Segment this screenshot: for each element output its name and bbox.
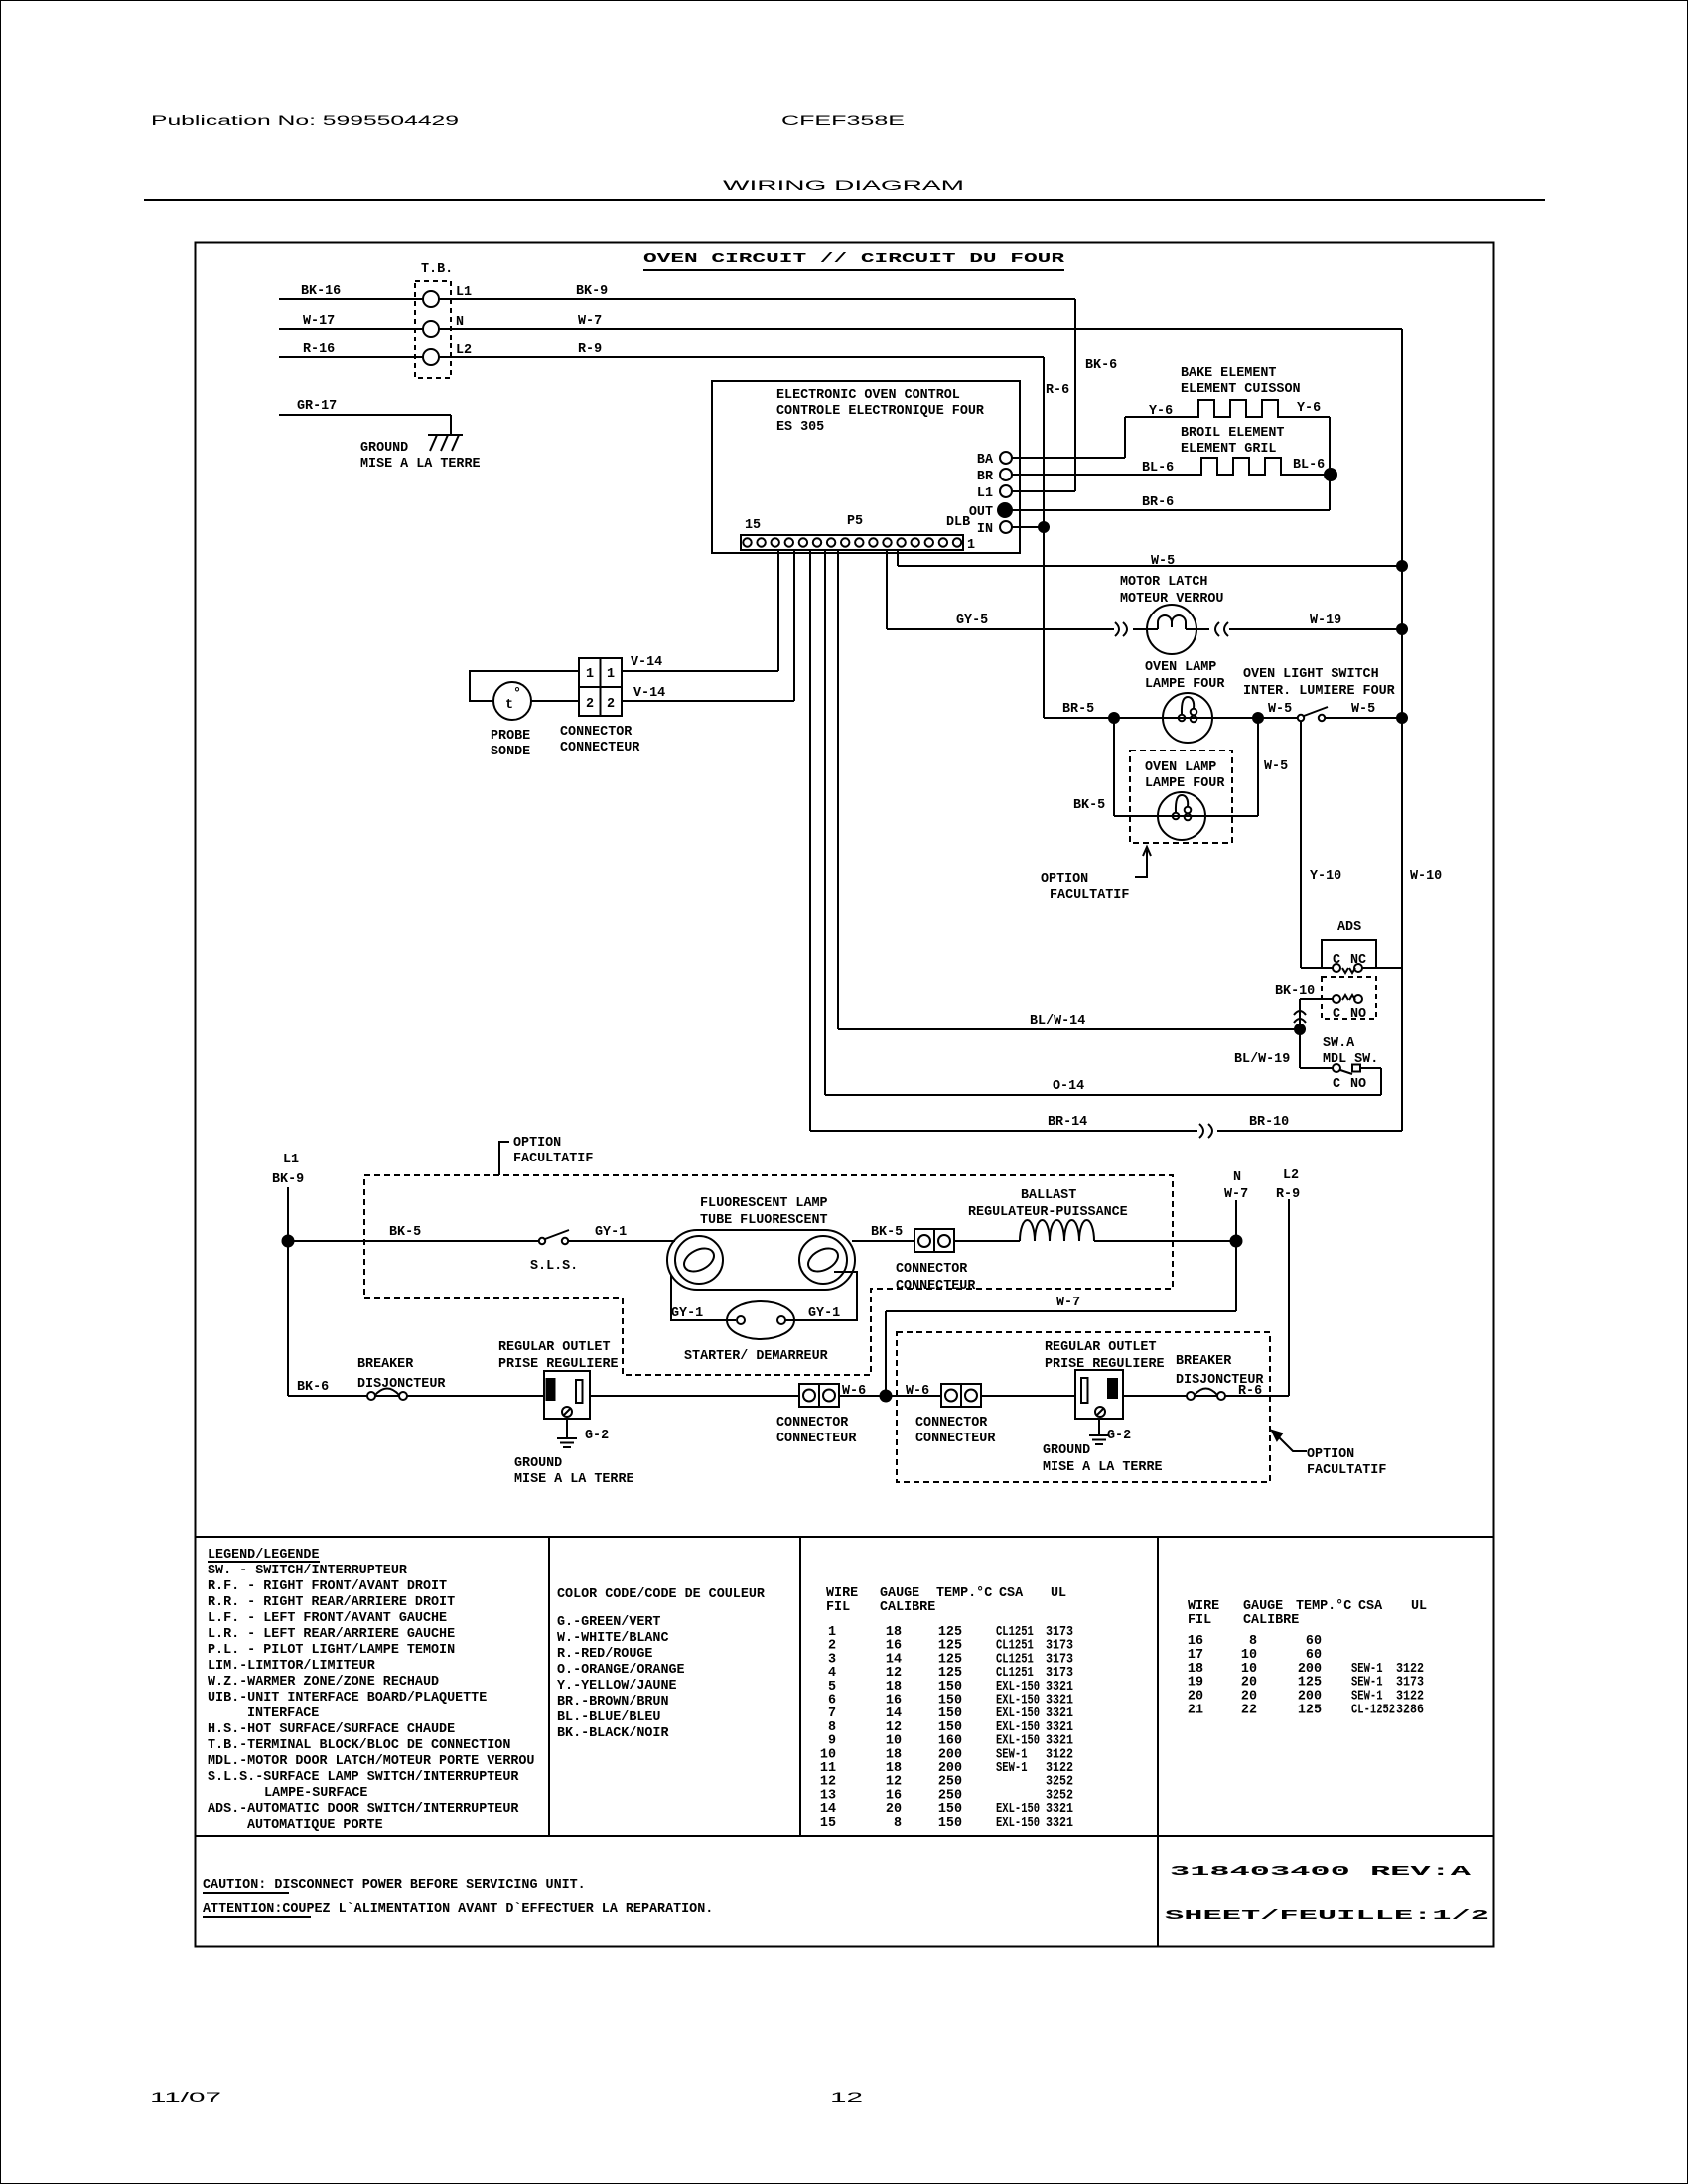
wire ballast to N node [1094,1240,1236,1242]
svg-text:CONNECTOR: CONNECTOR [776,1416,849,1431]
svg-text:LAMPE FOUR: LAMPE FOUR [1145,677,1225,692]
dashed option outline (fluorescent lamp group) [364,1175,1173,1375]
wire W bus vertical (W-7/W-10) right side [1401,329,1403,1131]
svg-text:V-14: V-14 [631,655,662,670]
svg-text:PRISE REGULIERE: PRISE REGULIERE [498,1357,619,1372]
svg-text:OVEN LAMP: OVEN LAMP [1145,660,1216,675]
svg-text:SEW-1: SEW-1 [1351,1676,1383,1691]
svg-text:GROUND: GROUND [1043,1443,1090,1458]
wire to W-6 junction [839,1395,886,1397]
svg-text:BROIL ELEMENT: BROIL ELEMENT [1181,426,1284,441]
svg-text:L1: L1 [283,1153,299,1167]
wire GR-17 ground lead [279,399,451,435]
wire W-6 to right outlet [981,1395,1075,1397]
svg-text:OVEN CIRCUIT // CIRCUIT DU FOU: OVEN CIRCUIT // CIRCUIT DU FOUR [643,252,1066,267]
starter STARTER/DEMARREUR [684,1301,829,1364]
ground symbol right outlet G-2 [1043,1419,1163,1475]
svg-text:SEW-1: SEW-1 [1351,1662,1383,1677]
svg-text:C: C [1333,1077,1340,1092]
svg-text:125: 125 [1298,1676,1322,1691]
svg-text:t: t [505,698,513,713]
svg-text:FLUORESCENT LAMP: FLUORESCENT LAMP [700,1196,828,1211]
svg-text:125: 125 [1298,1704,1322,1718]
leader arrow to right option box [1272,1431,1307,1451]
svg-text:T.B.-TERMINAL BLOCK/BLOC DE CO: T.B.-TERMINAL BLOCK/BLOC DE CONNECTION [208,1738,510,1753]
connector (ballast) 2 pole [896,1229,976,1294]
svg-text:SW.A: SW.A [1323,1036,1355,1051]
svg-text:FACULTATIF: FACULTATIF [1307,1463,1386,1478]
svg-text:17: 17 [1188,1648,1203,1663]
svg-text:W-7: W-7 [578,314,602,329]
svg-text:2: 2 [607,697,615,712]
wire V-14 pin1 from P5 strip [622,550,778,671]
junction W-6 / W-7 [881,1391,892,1402]
junction BK-9/BK-5 [283,1236,294,1247]
svg-text:CSA: CSA [1358,1599,1383,1614]
junction BR-5 / optional lamp branch [1109,713,1119,723]
wire BK-10 to ADS lower C [1275,984,1333,1029]
EOC connector strip P5 [741,514,975,553]
wire BK-5 branch to optional lamp [1073,718,1114,816]
svg-text:W.-WHITE/BLANC: W.-WHITE/BLANC [557,1631,669,1646]
svg-text:WIRING DIAGRAM: WIRING DIAGRAM [723,178,964,193]
svg-text:W-17: W-17 [303,314,335,329]
svg-text:10: 10 [1241,1648,1257,1663]
svg-text:W-10: W-10 [1410,869,1442,884]
svg-text:P5: P5 [847,514,863,529]
dashed option outline (right outlet group) [897,1332,1270,1482]
svg-text:BL.-BLUE/BLEU: BL.-BLUE/BLEU [557,1710,660,1725]
svg-text:ELEMENT CUISSON: ELEMENT CUISSON [1181,382,1301,397]
svg-text:W-7: W-7 [1224,1187,1248,1202]
ADS automatic door switch lower (C-NO) dashed [1322,977,1376,1022]
svg-text:12: 12 [830,2090,863,2105]
junction W-5 switch on W bus [1397,713,1407,723]
svg-text:GR-17: GR-17 [297,399,337,414]
svg-text:L.R. - LEFT REAR/ARRIERE GAUCH: L.R. - LEFT REAR/ARRIERE GAUCHE [208,1627,455,1642]
wire Y-10 from oven light switch to ADS [1301,721,1341,968]
wire R-9 from terminal L2 [439,342,1044,357]
svg-text:60: 60 [1306,1634,1322,1649]
svg-text:UL: UL [1411,1599,1427,1614]
svg-text:318403400 REV:A: 318403400 REV:A [1170,1865,1473,1880]
svg-text:BK-9: BK-9 [576,284,608,299]
wire W-5 from P5 strip to W bus [898,550,1402,569]
svg-text:BL-6: BL-6 [1293,458,1325,473]
junction W-5 on W bus [1397,561,1407,571]
node L2 R-9 lower feed [1276,1168,1300,1396]
svg-text:P.L. - PILOT LIGHT/LAMPE TEMOI: P.L. - PILOT LIGHT/LAMPE TEMOIN [208,1643,455,1658]
svg-text:BREAKER: BREAKER [1176,1354,1232,1369]
wire GY-5 from P5 strip to motor latch [887,550,1114,629]
svg-text:SHEET/FEUILLE:1/2: SHEET/FEUILLE:1/2 [1165,1909,1489,1924]
EOC pin OUT (DLB) [946,503,1012,530]
svg-text:T.B.: T.B. [421,262,453,277]
svg-text:O-14: O-14 [1053,1079,1084,1094]
svg-text:GAUGE: GAUGE [880,1586,919,1601]
svg-text:OUT: OUT [969,505,993,520]
svg-text:OVEN LIGHT SWITCH: OVEN LIGHT SWITCH [1243,667,1379,682]
svg-text:CONTROLE ELECTRONIQUE FOUR: CONTROLE ELECTRONIQUE FOUR [776,404,985,419]
svg-text:N: N [456,315,464,330]
terminal block T.B. [415,262,472,378]
svg-text:CONNECTEUR: CONNECTEUR [560,741,640,755]
svg-text:REGULAR OUTLET: REGULAR OUTLET [1045,1340,1157,1355]
svg-text:FIL: FIL [826,1600,850,1615]
svg-text:OPTION: OPTION [1041,872,1088,887]
wire from EOC IN pin to R-6 [1012,526,1044,528]
svg-text:BK-5: BK-5 [1073,798,1105,813]
svg-text:10: 10 [1241,1662,1257,1677]
oven lamp LAMPE FOUR [1114,660,1258,743]
fluorescent lamp TUBE FLUORESCENT [667,1196,855,1290]
svg-text:PROBE: PROBE [491,729,530,744]
svg-text:S.L.S.: S.L.S. [530,1259,578,1274]
wire gauge table 1-15 [820,1586,1073,1831]
svg-text:11/07: 11/07 [150,2090,221,2105]
junction W-5 / optional lamp return [1253,713,1263,723]
svg-text:W-5: W-5 [1151,554,1175,569]
svg-text:CALIBRE: CALIBRE [880,1600,935,1615]
svg-text:ELECTRONIC OVEN CONTROL: ELECTRONIC OVEN CONTROL [776,388,960,403]
probe connector 2x2 [560,658,640,755]
EOC pin BA [977,452,1012,468]
svg-text:V-14: V-14 [633,686,665,701]
svg-text:BAKE ELEMENT: BAKE ELEMENT [1181,366,1276,381]
svg-text:Y-6: Y-6 [1297,401,1321,416]
svg-text:R.R. - RIGHT REAR/ARRIERE DROI: R.R. - RIGHT REAR/ARRIERE DROIT [208,1595,455,1610]
wire probe to connector pin2 [531,700,579,702]
svg-text:Y.-YELLOW/JAUNE: Y.-YELLOW/JAUNE [557,1679,677,1694]
node N W-7 lower feed [1224,1170,1248,1311]
wire lamp to starter left GY-1 [671,1275,736,1321]
svg-text:CONNECTOR: CONNECTOR [560,725,633,740]
svg-text:GROUND: GROUND [514,1456,562,1471]
svg-text:BK-6: BK-6 [1085,358,1117,373]
wire W-19 to W bus [1229,614,1402,629]
svg-text:CALIBRE: CALIBRE [1243,1613,1299,1628]
svg-text:OVEN LAMP: OVEN LAMP [1145,760,1216,775]
connector chevrons left of motor latch [1115,622,1127,636]
svg-text:8: 8 [1249,1634,1257,1649]
svg-text:WIRE: WIRE [826,1586,858,1601]
ADS automatic door switch upper (C-NC) [1322,920,1376,973]
svg-text:1: 1 [607,667,615,682]
svg-text:GROUND: GROUND [360,441,408,456]
svg-text:BL/W-19: BL/W-19 [1234,1052,1290,1067]
wire from EOC BA pin to bake element (Y-6) [1012,417,1125,458]
svg-text:20: 20 [1188,1690,1203,1705]
surface lamp switch S.L.S. [530,1230,578,1274]
wire O-14 return from MDL switch [825,550,1381,1095]
svg-text:CONNECTEUR: CONNECTEUR [776,1432,857,1446]
svg-text:BA: BA [977,453,994,468]
wire from EOC L1 pin to BK-6 [1012,490,1075,492]
svg-text:TUBE FLUORESCENT: TUBE FLUORESCENT [700,1213,828,1228]
svg-text:TEMP.°C: TEMP.°C [936,1586,992,1601]
svg-text:W-19: W-19 [1310,614,1341,628]
svg-text:18: 18 [1188,1662,1203,1677]
svg-text:W-5: W-5 [1351,702,1375,717]
svg-text:UL: UL [1051,1586,1066,1601]
svg-text:W-5: W-5 [1268,702,1292,717]
svg-text:W-7: W-7 [1056,1296,1080,1310]
svg-text:20: 20 [1241,1690,1257,1705]
svg-text:CL-1252: CL-1252 [1351,1704,1395,1718]
svg-text:3321: 3321 [1046,1816,1073,1831]
wire BR-6 from EOC OUT pin [1012,417,1330,510]
wire BL/W-19 drop to MDL switch [1234,1029,1333,1068]
svg-text:H.S.-HOT SURFACE/SURFACE CHAUD: H.S.-HOT SURFACE/SURFACE CHAUDE [208,1722,455,1737]
svg-text:15: 15 [820,1816,836,1831]
svg-text:Y-10: Y-10 [1310,869,1341,884]
svg-text:1: 1 [967,538,975,553]
wire V-14 pin2 from P5 strip [622,550,794,701]
svg-text:200: 200 [1298,1690,1322,1705]
EOC pin BR [977,469,1012,484]
svg-text:GY-1: GY-1 [595,1225,627,1240]
svg-text:15: 15 [745,518,761,533]
svg-text:FACULTATIF: FACULTATIF [513,1152,593,1166]
svg-text:BK-10: BK-10 [1275,984,1315,999]
legend column divider 1 [548,1537,550,1836]
breaker DISJONCTEUR right [1176,1354,1264,1400]
svg-text:21: 21 [1188,1704,1203,1718]
legend COLOR CODE column [557,1587,766,1741]
svg-text:BR: BR [977,470,994,484]
svg-text:1: 1 [586,667,594,682]
svg-text:LAMPE FOUR: LAMPE FOUR [1145,776,1225,791]
svg-text:2: 2 [586,697,594,712]
ground symbol left outlet G-2 [514,1419,634,1487]
svg-text:NC: NC [1350,953,1366,968]
svg-text:L2: L2 [456,343,472,358]
caution note [203,1878,713,1917]
svg-text:G-2: G-2 [585,1429,609,1443]
junction W-19 on W bus [1397,624,1407,634]
svg-text:MOTOR LATCH: MOTOR LATCH [1120,575,1207,590]
node L1 BK-9 lower feed [272,1153,304,1396]
wire BR-14 from P5 strip [810,550,1197,1131]
wire BK-6 vertical drop to EOC L1 pin [1075,299,1117,491]
svg-text:R-16: R-16 [303,342,335,357]
wire R-16 to terminal L2 [279,342,423,357]
svg-text:R-6: R-6 [1238,1384,1262,1399]
svg-text:AUTOMATIQUE PORTE: AUTOMATIQUE PORTE [247,1818,383,1833]
wire GY-1 to fluorescent lamp [568,1225,675,1241]
label OPTION FACULTATIF (optional lamp) [1041,872,1129,903]
svg-text:OPTION: OPTION [513,1136,561,1151]
connector W-6 right 2 pole [886,1384,996,1446]
svg-text:BR-10: BR-10 [1249,1115,1289,1130]
wire BK-16 to terminal L1 [279,284,423,299]
svg-text:CONNECTEUR: CONNECTEUR [915,1432,996,1446]
svg-text:INTERFACE: INTERFACE [247,1706,319,1721]
svg-text:NO: NO [1350,1007,1366,1022]
svg-text:CSA: CSA [999,1586,1024,1601]
svg-text:BR-5: BR-5 [1062,702,1094,717]
svg-text:CAUTION: DISCONNECT POWER BEFO: CAUTION: DISCONNECT POWER BEFORE SERVICI… [203,1878,586,1893]
svg-text:REGULATEUR-PUISSANCE: REGULATEUR-PUISSANCE [968,1205,1128,1220]
svg-text:FIL: FIL [1188,1613,1211,1628]
svg-text:22: 22 [1241,1704,1257,1718]
legend panel top border [196,1536,1495,1538]
svg-text:MISE A LA TERRE: MISE A LA TERRE [514,1472,634,1487]
svg-text:S.L.S.-SURFACE LAMP SWITCH/INT: S.L.S.-SURFACE LAMP SWITCH/INTERRUPTEUR [208,1770,519,1785]
broil element (ELEMENT GRIL) [1012,426,1331,476]
connector W-6 left 2 pole [776,1384,866,1446]
svg-text:ADS: ADS [1337,920,1361,935]
svg-text:L1: L1 [977,486,993,501]
wire BK-5 to surface lamp switch [288,1225,539,1241]
svg-text:3122: 3122 [1396,1662,1424,1677]
junction IN/R-6 [1039,522,1049,532]
svg-text:SEW-1: SEW-1 [1351,1690,1383,1705]
label OPTION FACULTATIF (fluorescent) [499,1136,593,1175]
svg-text:LEGEND/LEGENDE: LEGEND/LEGENDE [208,1548,320,1563]
svg-text:DLB: DLB [946,515,970,530]
optional oven lamp dashed box [1130,751,1232,843]
svg-text:LIM.-LIMITOR/LIMITEUR: LIM.-LIMITOR/LIMITEUR [208,1659,376,1674]
wire W-5 vertical to optional lamp [1258,718,1288,816]
wire BK-6 bottom feed [288,1380,544,1396]
regular outlet PRISE REGULIERE right [1045,1340,1165,1419]
ground symbol (chassis) for GR-17 [360,435,481,472]
svg-text:MDL.-MOTOR DOOR LATCH/MOTEUR P: MDL.-MOTOR DOOR LATCH/MOTEUR PORTE VERRO… [208,1754,534,1769]
svg-text:CFEF358E: CFEF358E [781,113,905,128]
svg-text:REGULAR OUTLET: REGULAR OUTLET [498,1340,611,1355]
legend LEGEND/LEGENDE [208,1548,534,1833]
connector chevrons right of motor latch [1215,622,1228,636]
junction BL/W-14 / BK-10 [1295,1024,1305,1034]
connector chevrons on BK-10 drop [1294,1011,1306,1023]
svg-text:3286: 3286 [1396,1704,1424,1718]
svg-text:ATTENTION:COUPEZ L`ALIMENTATIO: ATTENTION:COUPEZ L`ALIMENTATION AVANT D`… [203,1902,713,1917]
svg-text:20: 20 [1241,1676,1257,1691]
svg-text:O.-ORANGE/ORANGE: O.-ORANGE/ORANGE [557,1663,685,1678]
svg-text:BK-5: BK-5 [871,1225,903,1240]
svg-text:INTER. LUMIERE FOUR: INTER. LUMIERE FOUR [1243,684,1396,699]
svg-text:G-2: G-2 [1107,1429,1131,1443]
svg-text:60: 60 [1306,1648,1322,1663]
regular outlet PRISE REGULIERE left [498,1340,619,1419]
svg-text:L.F. - LEFT FRONT/AVANT GAUCHE: L.F. - LEFT FRONT/AVANT GAUCHE [208,1611,447,1626]
svg-text:BK-9: BK-9 [272,1172,304,1187]
svg-text:16: 16 [1188,1634,1203,1649]
svg-text:BK-5: BK-5 [389,1225,421,1240]
wire W-7 return to W-6 junction [886,1296,1236,1396]
svg-text:LAMPE-SURFACE: LAMPE-SURFACE [264,1786,367,1801]
electronic oven control ES 305 box [712,381,1020,553]
svg-text:BL-6: BL-6 [1142,461,1174,476]
svg-text:FACULTATIF: FACULTATIF [1050,888,1129,903]
svg-text:L2: L2 [1283,1168,1299,1183]
svg-text:BALLAST: BALLAST [1021,1188,1076,1203]
wire R-6 right outlet to breaker [1123,1395,1289,1397]
svg-text:SW. - SWITCH/INTERRUPTEUR: SW. - SWITCH/INTERRUPTEUR [208,1564,408,1578]
svg-text:CONNECTOR: CONNECTOR [896,1262,968,1277]
svg-text:BK-16: BK-16 [301,284,341,299]
wire BK-9 from terminal L1 [439,284,1075,299]
svg-text:ES 305: ES 305 [776,420,824,435]
breaker DISJONCTEUR left [357,1357,446,1400]
svg-text:150: 150 [938,1816,962,1831]
ballast REGULATEUR-PUISSANCE [968,1188,1128,1241]
svg-text:19: 19 [1188,1676,1203,1691]
EOC pin IN [977,521,1012,537]
svg-text:R-9: R-9 [578,342,602,357]
svg-text:CONNECTEUR: CONNECTEUR [896,1279,976,1294]
label OPTION FACULTATIF (right outlet) [1307,1447,1386,1478]
svg-text:3173: 3173 [1396,1676,1424,1691]
svg-text:OPTION: OPTION [1307,1447,1354,1462]
svg-text:UIB.-UNIT INTERFACE BOARD/PLAQ: UIB.-UNIT INTERFACE BOARD/PLAQUETTE [208,1691,487,1706]
svg-text:TEMP.°C: TEMP.°C [1296,1599,1351,1614]
wire W-6 left [590,1395,799,1397]
svg-text:ADS.-AUTOMATIC DOOR SWITCH/INT: ADS.-AUTOMATIC DOOR SWITCH/INTERRUPTEUR [208,1802,519,1817]
wire BL/W-14 from P5 strip [838,550,1300,1029]
svg-text:°: ° [513,687,521,702]
wire BR-10 to W bus bottom [1217,1115,1402,1131]
svg-text:SONDE: SONDE [491,745,530,759]
junction BL-6/BR-6 [1325,469,1336,480]
svg-text:SEW-1: SEW-1 [996,1761,1028,1776]
wire BR-5 to oven lamp [1044,702,1114,718]
wire probe to connector pin1 [470,671,579,701]
wire R-6 vertical drop from R-9 [1044,357,1069,718]
svg-text:IN: IN [977,522,993,537]
svg-text:BL/W-14: BL/W-14 [1030,1014,1085,1028]
svg-text:GY-1: GY-1 [808,1306,840,1321]
svg-text:C: C [1333,1007,1340,1022]
junction N node [1231,1236,1242,1247]
svg-text:W-5: W-5 [1264,759,1288,774]
wire starter right to lamp GY-1 [785,1272,857,1321]
svg-text:R-6: R-6 [1046,383,1069,398]
svg-text:CONNECTOR: CONNECTOR [915,1416,988,1431]
svg-text:G.-GREEN/VERT: G.-GREEN/VERT [557,1615,660,1630]
svg-text:L1: L1 [456,285,472,300]
wire gauge table 16-21 [1188,1599,1427,1718]
svg-text:GY-5: GY-5 [956,614,988,628]
svg-text:STARTER/ DEMARREUR: STARTER/ DEMARREUR [684,1349,829,1364]
svg-text:8: 8 [894,1816,902,1831]
svg-text:GAUGE: GAUGE [1243,1599,1283,1614]
svg-text:N: N [1233,1170,1241,1185]
svg-text:200: 200 [1298,1662,1322,1677]
svg-text:NO: NO [1350,1077,1366,1092]
svg-text:BK-6: BK-6 [297,1380,329,1395]
svg-text:MISE A LA TERRE: MISE A LA TERRE [360,457,481,472]
svg-text:W.Z.-WARMER ZONE/ZONE RECHAUD: W.Z.-WARMER ZONE/ZONE RECHAUD [208,1675,439,1690]
wire W-7 from terminal N to right bus [439,314,1402,329]
svg-text:ELEMENT GRIL: ELEMENT GRIL [1181,442,1276,457]
svg-text:WIRE: WIRE [1188,1599,1219,1614]
wire ADS NC to W bus [1362,967,1402,969]
leader arrow to optional lamp [1135,847,1151,877]
motor latch MOTEUR VERROU [1120,575,1223,654]
legend panel bottom border [196,1835,1495,1837]
svg-text:BR.-BROWN/BRUN: BR.-BROWN/BRUN [557,1695,669,1709]
oven temperature probe SONDE [491,682,531,759]
wire W-17 to terminal N [279,314,423,329]
legend column divider 3 [1157,1537,1159,1947]
wire BK-5 from lamp to connector [852,1225,914,1241]
svg-text:COLOR CODE/CODE DE COULEUR: COLOR CODE/CODE DE COULEUR [557,1587,766,1602]
diagram border box [196,243,1494,1947]
svg-text:GY-1: GY-1 [671,1306,703,1321]
bake element (ELEMENT CUISSON) [1125,366,1330,419]
